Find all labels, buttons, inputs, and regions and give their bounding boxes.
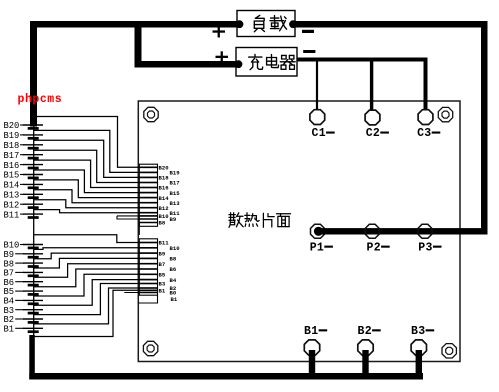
wire tip at charger + [235,60,243,68]
label C2- terminal [366,127,389,140]
wire: bottom negative bus [29,373,423,380]
battery cell B5 [15,291,43,294]
svg-text:B9: B9 [170,216,177,223]
terminal C3- [418,110,433,125]
svg-text:B18: B18 [4,141,20,151]
svg-text:B8: B8 [170,256,177,263]
svg-text:B11: B11 [159,240,170,247]
wire B3- sense to connector [34,284,158,315]
battery chain vertical [33,116,35,337]
terminal C2- [365,110,380,125]
mounting hole bottom-right [442,344,456,358]
battery cell B7 [15,272,43,275]
svg-text:B1: B1 [304,325,318,338]
battery cell B13 [20,194,43,197]
label C1- terminal [312,127,335,140]
wire B4- sense to connector [34,280,158,306]
svg-text:B9: B9 [159,250,166,257]
svg-text:P3: P3 [418,241,432,254]
svg-text:phpcms: phpcms [18,93,63,106]
wire B5- sense to connector [34,274,158,296]
svg-text:B12: B12 [4,200,20,210]
wire: stub B2- to bottom bus [362,350,368,374]
connector pin number labels [159,165,181,304]
svg-text:B13: B13 [170,200,181,207]
svg-text:B20: B20 [159,165,170,172]
wire stub pin13 [139,223,157,236]
battery cell B20 [20,125,43,128]
battery cell B4 [15,300,43,303]
svg-text:B6: B6 [170,266,177,273]
board outline (BMS PCB) [138,101,460,362]
svg-text:B10: B10 [170,245,181,252]
wire: charger - bus [297,58,428,62]
terminal P1- [311,224,325,238]
battery cell B3 [15,310,43,313]
terminal B1- [304,340,319,355]
label P3- terminal [418,241,441,254]
wire B8- sense to connector [34,258,158,268]
minus at load [302,30,314,33]
svg-text:B1: B1 [171,296,178,303]
load box (fu zai) [237,11,295,37]
battery cell B15 [20,175,43,178]
wire: stub B1- to bottom bus [309,350,315,374]
wire: pack positive from B20+ up the left side [30,21,37,127]
mounting hole top-left [144,107,158,121]
wire B6- sense to connector [34,269,158,287]
terminal B2- [358,340,373,355]
wire: drop to C1- [316,62,318,110]
svg-text:B17: B17 [170,180,180,187]
svg-text:B19: B19 [4,131,20,141]
svg-text:B1: B1 [159,288,166,295]
svg-text:B14: B14 [4,181,20,191]
terminal P2- [365,224,379,238]
svg-text:B19: B19 [170,170,181,177]
wire stub pin12 [117,216,158,219]
terminal B3- [411,340,426,355]
svg-text:P2: P2 [367,241,381,254]
wire B11- sense [34,235,158,243]
label B2- terminal [358,325,381,338]
junction dot at P1- [314,227,323,236]
terminal P3- [418,224,432,238]
svg-text:B15: B15 [170,190,181,197]
wire B14+ sense to connector [34,180,158,198]
wire B1- sense [32,290,158,336]
battery cell B17 [20,155,43,158]
svg-text:B1: B1 [4,325,15,335]
wire: pack negative down from B1- [29,335,35,380]
wire B19+ sense to connector [34,130,158,172]
svg-text:C1: C1 [312,127,326,140]
battery cell B11 [20,214,43,217]
battery cell B2 [15,319,43,322]
battery cell B19 [20,135,43,138]
battery cell B9 [15,254,43,257]
label B1- terminal [304,325,327,338]
wire B10- sense to connector [34,248,158,250]
svg-text:B3: B3 [411,325,425,338]
wire tip at load + [236,20,244,28]
battery cell B16 [20,165,43,168]
battery cell B12 [20,204,43,207]
svg-text:B11: B11 [4,210,20,220]
plus at load [213,26,226,38]
wire: discharge bus through P terminals [316,228,488,234]
text san-re-pian-mian (heatsink side) [229,213,291,228]
wire B18+ sense to connector [34,140,158,177]
wire: drop to C2- [370,62,373,110]
wire B13+ sense to connector [34,190,158,203]
wire B15+ sense to connector [34,170,158,193]
plus at charger [216,51,229,63]
svg-text:B16: B16 [4,161,20,171]
wire B20+ sense to connector [34,117,158,168]
wire tip at load - [289,20,297,28]
wire B17+ sense to connector [34,150,158,182]
svg-text:B17: B17 [4,151,20,161]
wire: branch down to charger + [135,21,142,68]
wire: top bus to load + [30,21,237,28]
connector J2 bottom block [139,239,157,295]
svg-text:B8: B8 [159,220,166,227]
wire: drop to C3- [424,58,428,110]
text chong-dian-qi (charger) [249,54,296,69]
svg-text:B12: B12 [159,205,170,212]
battery cell B14 [20,184,43,187]
wire B9- sense to connector [34,253,158,259]
label P1- terminal [310,241,333,254]
wire B12+ sense to connector [34,200,158,208]
wire: branch into charger + terminal [135,61,237,68]
text fu-zai (load) [254,15,286,32]
battery cell B1 [15,328,43,331]
svg-text:B14: B14 [159,195,170,202]
svg-text:B2: B2 [358,325,372,338]
charger box (chong dian qi) [236,48,297,77]
svg-text:B13: B13 [4,191,20,201]
connector pin stubs [139,167,157,292]
svg-text:B20: B20 [4,121,20,131]
wire stub pin11 [117,215,158,217]
mounting hole bottom-left [143,341,157,355]
terminal C1- [310,110,325,125]
connector J1 top block [139,164,157,226]
battery cell B8 [15,263,43,266]
wire B2- sense to connector [34,288,158,324]
wire stub bottom pin12 [124,292,157,294]
svg-text:C3: C3 [417,127,431,140]
label P2- terminal [367,241,390,254]
wire: load - to right edge [295,21,488,28]
label C3- terminal [417,127,440,140]
label B3- terminal [411,325,434,338]
svg-text:B4: B4 [170,277,177,284]
wire: stub B3- to bottom bus [416,350,422,374]
svg-text:B16: B16 [159,185,170,192]
svg-text:B15: B15 [4,171,20,181]
wire B11+ sense to connector [34,210,158,213]
wire B16+ sense to connector [34,160,158,187]
svg-text:B18: B18 [159,175,170,182]
minus at charger [303,50,315,53]
battery cell B18 [20,145,43,148]
svg-text:B5: B5 [159,272,166,279]
svg-text:B7: B7 [159,261,166,268]
svg-text:P1: P1 [310,241,324,254]
wire: right side drop to P row [481,21,488,235]
battery cell B10 [20,245,43,248]
battery cell B6 [15,282,43,285]
wire B7- sense to connector [34,264,158,278]
svg-text:C2: C2 [366,127,380,140]
connector J2 lower extension [138,295,157,303]
mounting hole top-right [438,107,452,121]
